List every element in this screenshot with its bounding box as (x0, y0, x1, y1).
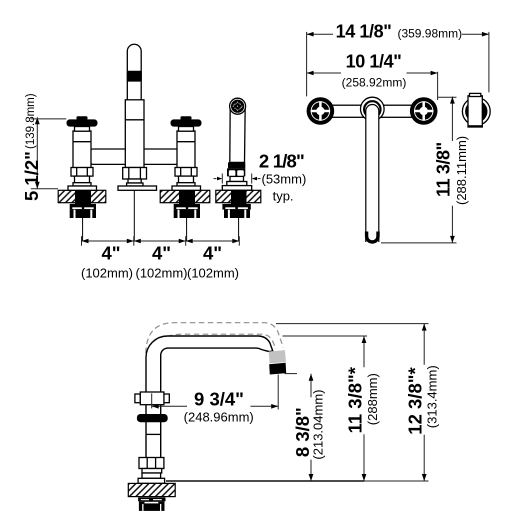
svg-text:(288.11mm): (288.11mm) (454, 136, 469, 205)
svg-text:12 3/8"*: 12 3/8"* (404, 366, 425, 434)
svg-text:(359.98mm): (359.98mm) (397, 27, 462, 41)
svg-text:typ.: typ. (273, 188, 294, 203)
svg-text:4": 4" (203, 243, 222, 264)
svg-text:(248.96mm): (248.96mm) (184, 409, 254, 424)
svg-text:(102mm): (102mm) (187, 266, 239, 281)
svg-text:10 1/4": 10 1/4" (346, 51, 402, 71)
svg-text:11 3/8": 11 3/8" (434, 142, 454, 197)
svg-text:5 1/2": 5 1/2" (21, 151, 42, 201)
svg-text:9 3/4": 9 3/4" (194, 388, 244, 409)
svg-text:(258.92mm): (258.92mm) (342, 76, 407, 90)
svg-text:(102mm): (102mm) (81, 266, 133, 281)
svg-text:(313.4mm): (313.4mm) (425, 365, 440, 428)
svg-text:14 1/8": 14 1/8" (336, 22, 392, 42)
svg-text:(102mm): (102mm) (135, 266, 187, 281)
svg-text:(139.8mm): (139.8mm) (25, 93, 37, 149)
svg-text:(288mm): (288mm) (365, 373, 380, 425)
svg-text:(213.04mm): (213.04mm) (311, 390, 326, 460)
svg-text:4": 4" (152, 243, 171, 264)
svg-text:2 1/8": 2 1/8" (259, 151, 304, 172)
svg-text:11 3/8"*: 11 3/8"* (344, 366, 365, 433)
svg-text:4": 4" (101, 243, 120, 264)
svg-text:(53mm): (53mm) (262, 171, 307, 186)
